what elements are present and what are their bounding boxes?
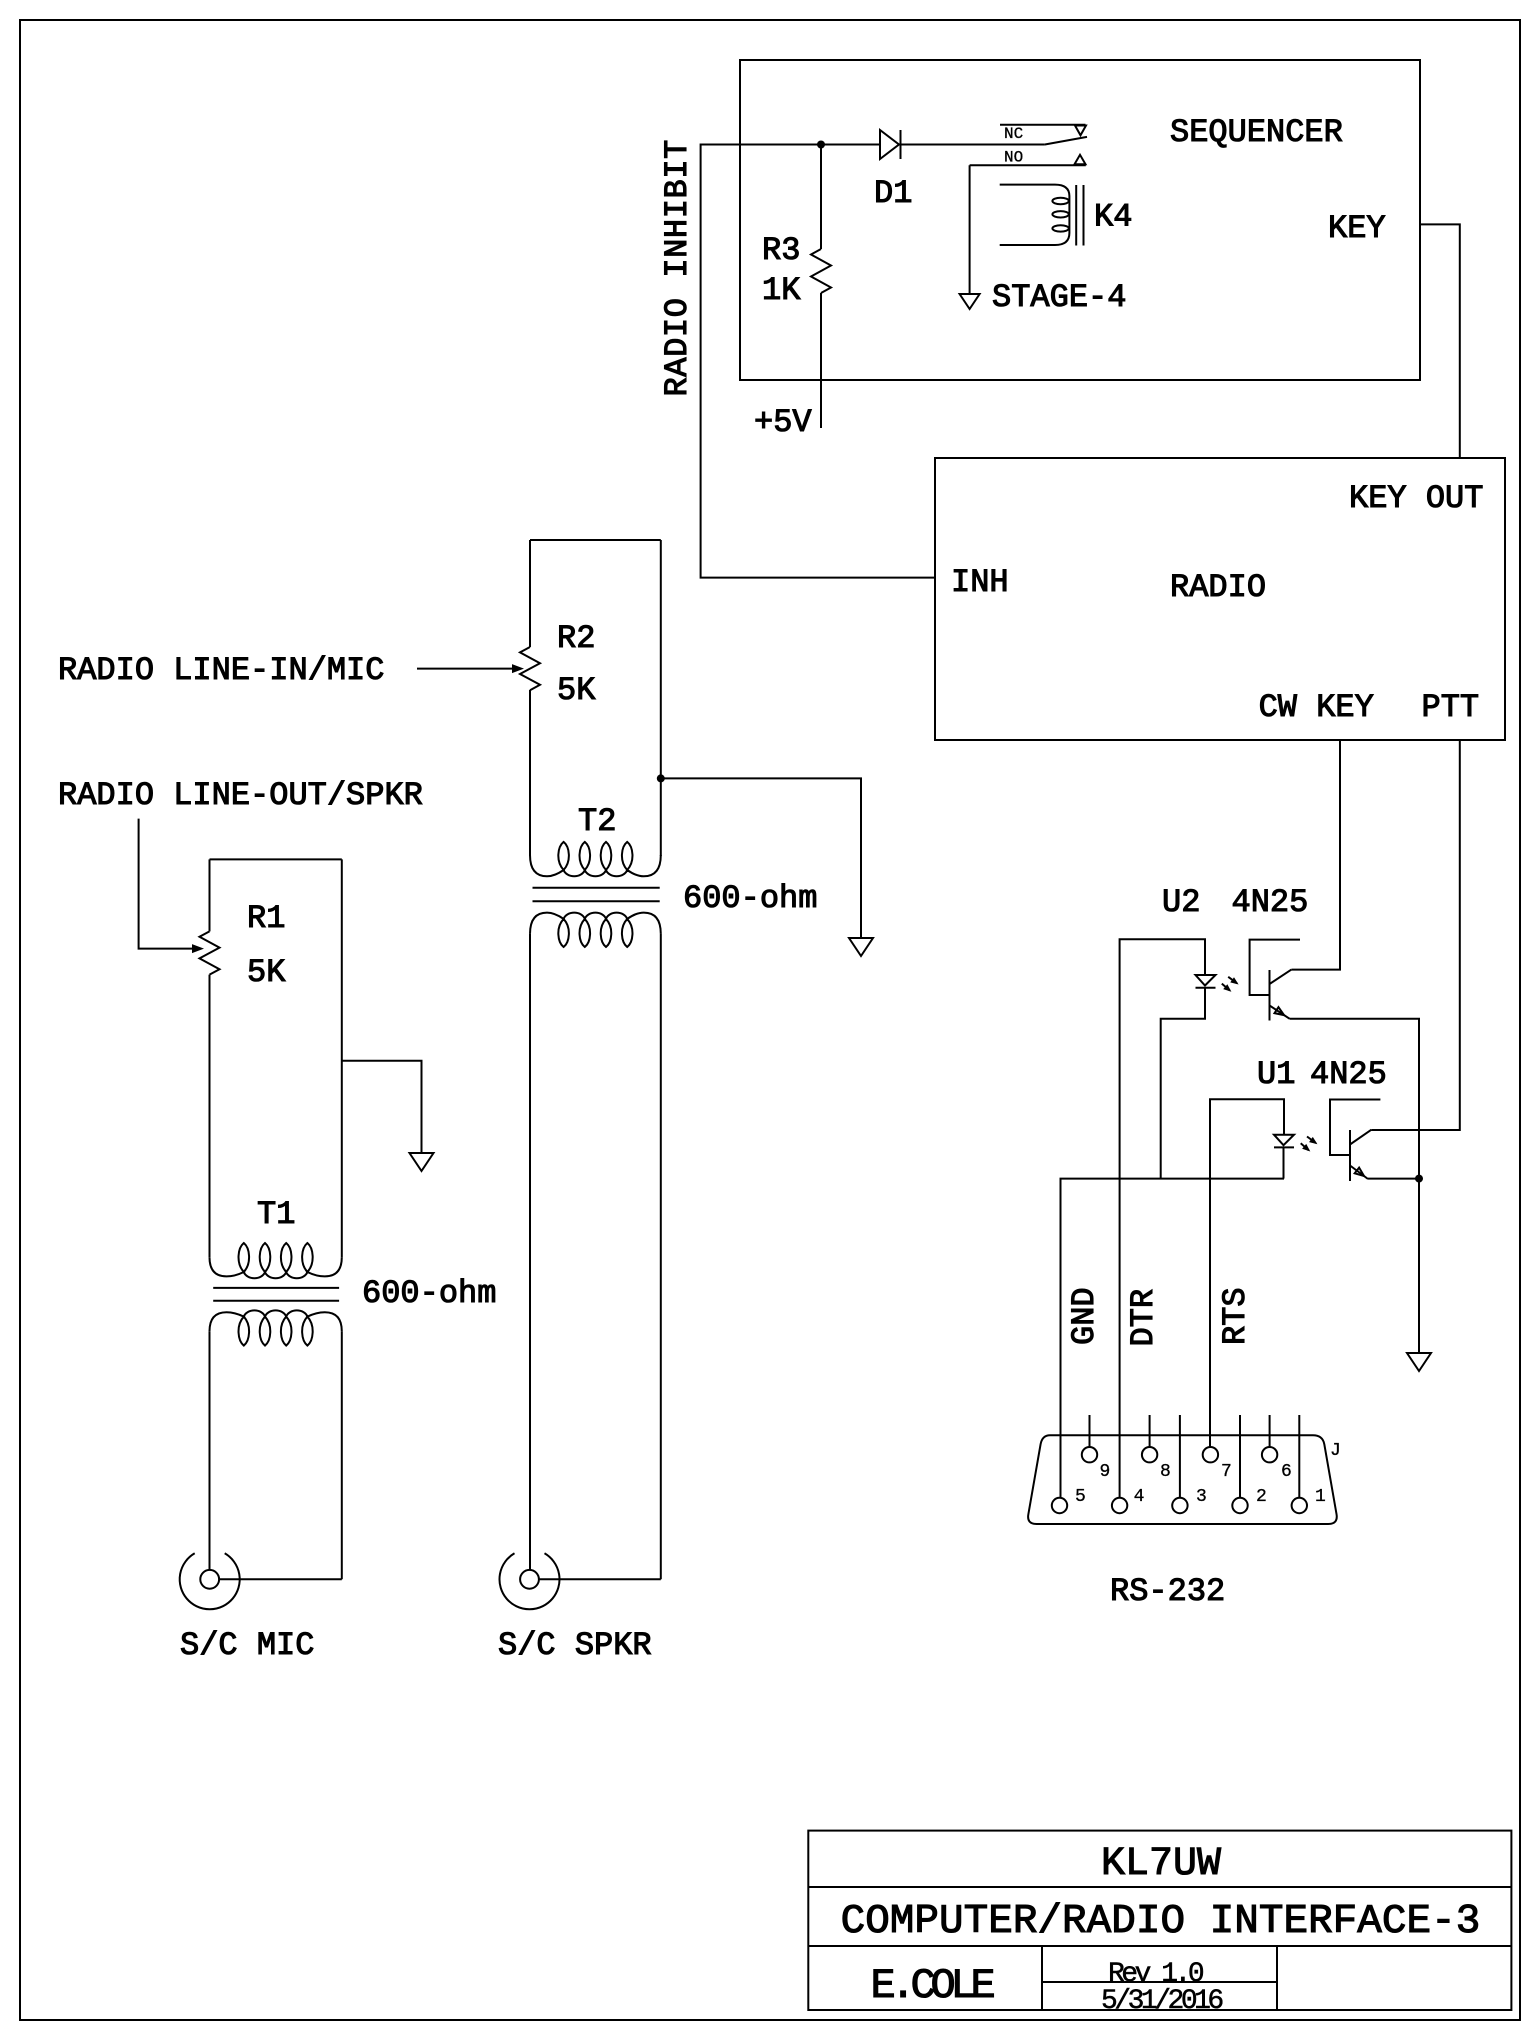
T1 upper winding box xyxy=(210,859,342,1257)
ground symbol right xyxy=(1407,1353,1431,1371)
T2 upper winding box xyxy=(530,540,661,856)
svg-text:+5V: +5V xyxy=(754,404,812,441)
jack S/C SPKR xyxy=(500,1553,560,1609)
wire RADIO INHIBIT net xyxy=(701,145,935,578)
pin stub 8 xyxy=(1149,1415,1151,1447)
pin 3 xyxy=(1172,1498,1187,1513)
svg-text:KEY OUT: KEY OUT xyxy=(1349,480,1483,517)
pin 2 xyxy=(1232,1498,1247,1513)
pin stub 3 xyxy=(1179,1415,1181,1498)
svg-text:INH: INH xyxy=(951,564,1009,601)
relay coil K4 xyxy=(1000,185,1070,245)
ground symbol T2 xyxy=(849,938,873,956)
U2 light arrows xyxy=(1222,977,1241,994)
T2 secondary box wires xyxy=(530,934,661,1579)
svg-text:KEY: KEY xyxy=(1328,210,1386,247)
T1 secondary coil xyxy=(210,1310,342,1345)
svg-text:4: 4 xyxy=(1134,1487,1145,1507)
wire U1 LED cathode to gnd rail xyxy=(1283,1147,1285,1178)
svg-text:R2: R2 xyxy=(557,620,595,657)
svg-text:K4: K4 xyxy=(1094,199,1132,236)
U1 LED xyxy=(1274,1135,1294,1148)
pin 1 xyxy=(1292,1498,1307,1513)
svg-text:8: 8 xyxy=(1160,1462,1171,1482)
svg-text:9: 9 xyxy=(1100,1462,1111,1482)
potentiometer R1 xyxy=(200,859,220,1257)
title cell divider right xyxy=(1276,1946,1278,2010)
svg-text:RS-232: RS-232 xyxy=(1110,1573,1225,1610)
U1 base lead xyxy=(1330,1100,1380,1156)
title cell divider left xyxy=(1041,1946,1043,2010)
title row divider 2 xyxy=(808,1945,1511,1947)
svg-text:5K: 5K xyxy=(247,954,286,991)
T1 primary coil xyxy=(210,1243,342,1278)
U1 light arrows xyxy=(1301,1137,1320,1154)
T1 core xyxy=(213,1288,339,1301)
svg-text:U2: U2 xyxy=(1162,884,1200,921)
svg-text:NC: NC xyxy=(1004,125,1023,143)
svg-text:5K: 5K xyxy=(557,672,596,709)
svg-text:SEQUENCER: SEQUENCER xyxy=(1170,114,1343,151)
svg-text:COMPUTER/RADIO INTERFACE-3: COMPUTER/RADIO INTERFACE-3 xyxy=(841,1899,1481,1945)
svg-text:4N25: 4N25 xyxy=(1232,884,1309,921)
pin stub 1 xyxy=(1298,1415,1300,1498)
svg-text:6: 6 xyxy=(1281,1462,1292,1482)
svg-text:5/31/2016: 5/31/2016 xyxy=(1101,1986,1222,2017)
T2 core xyxy=(533,888,660,902)
svg-text:S/C MIC: S/C MIC xyxy=(180,1627,314,1664)
pin 9 xyxy=(1082,1447,1097,1462)
svg-text:1: 1 xyxy=(1315,1487,1326,1507)
svg-text:R1: R1 xyxy=(247,900,285,937)
DB9 connector J outline xyxy=(1028,1435,1337,1524)
title row divider 1 xyxy=(808,1886,1511,1888)
T1 secondary box wires xyxy=(210,1331,342,1579)
svg-text:D1: D1 xyxy=(874,175,912,212)
T2 secondary coil xyxy=(530,913,661,947)
wire CW KEY to U2 collector xyxy=(1291,740,1340,970)
U1 transistor xyxy=(1350,1130,1419,1181)
svg-text:RADIO: RADIO xyxy=(1170,569,1266,606)
diode D1 xyxy=(880,130,1045,159)
svg-text:J: J xyxy=(1330,1441,1341,1461)
pin stub 9 xyxy=(1089,1415,1091,1447)
wire KEY from sequencer to radio xyxy=(1420,224,1460,458)
SEQUENCER box xyxy=(740,60,1420,380)
jack S/C MIC xyxy=(180,1553,240,1609)
svg-text:7: 7 xyxy=(1221,1462,1232,1482)
svg-text:NO: NO xyxy=(1004,149,1023,167)
ground symbol T1 xyxy=(410,1153,434,1171)
pin 6 xyxy=(1262,1447,1277,1462)
svg-text:1K: 1K xyxy=(762,272,801,309)
svg-text:600-ohm: 600-ohm xyxy=(683,880,817,917)
relay K4 core xyxy=(1076,185,1083,246)
title block outline xyxy=(808,1831,1511,2010)
svg-text:2: 2 xyxy=(1256,1487,1267,1507)
svg-text:GND: GND xyxy=(1066,1287,1103,1345)
svg-text:T1: T1 xyxy=(257,1196,295,1233)
svg-text:3: 3 xyxy=(1196,1487,1207,1507)
wire PTT to U1 collector xyxy=(1371,740,1459,1130)
svg-text:PTT: PTT xyxy=(1422,689,1480,726)
svg-text:5: 5 xyxy=(1075,1487,1086,1507)
relay contact NO xyxy=(970,155,1086,166)
svg-text:600-ohm: 600-ohm xyxy=(362,1275,496,1312)
svg-text:4N25: 4N25 xyxy=(1310,1056,1387,1093)
wire T2 tap to ground xyxy=(660,778,861,938)
pin 7 xyxy=(1203,1447,1218,1462)
resistor R3 xyxy=(811,145,831,429)
svg-text:RADIO INHIBIT: RADIO INHIBIT xyxy=(659,139,696,396)
wire NO to ground xyxy=(969,165,971,294)
relay armature xyxy=(1045,137,1087,145)
svg-text:DTR: DTR xyxy=(1125,1289,1162,1347)
node U2 emitter / U1 emitter junction xyxy=(1415,1175,1423,1183)
wire U2 LED cathode to gnd rail xyxy=(1161,988,1205,1179)
U2 LED xyxy=(1196,975,1216,988)
svg-text:RADIO LINE-IN/MIC: RADIO LINE-IN/MIC xyxy=(58,652,384,689)
RADIO box xyxy=(935,458,1505,740)
ground STAGE-4 xyxy=(960,294,980,309)
potentiometer R2 xyxy=(520,540,540,856)
pin stub 6 xyxy=(1269,1415,1271,1447)
wire arrow to R2 wiper xyxy=(417,664,524,673)
node junction D1/R3 xyxy=(817,141,825,149)
svg-text:RTS: RTS xyxy=(1217,1287,1254,1345)
svg-text:KL7UW: KL7UW xyxy=(1101,1842,1221,1887)
pin 4 xyxy=(1112,1498,1127,1513)
svg-text:E.COLE: E.COLE xyxy=(871,1962,995,2010)
wire RTS to U1 LED anode xyxy=(1210,1099,1284,1448)
svg-text:RADIO LINE-OUT/SPKR: RADIO LINE-OUT/SPKR xyxy=(58,777,423,814)
wire emitter junction to ground xyxy=(1418,1179,1420,1353)
wire T1 tap to ground xyxy=(342,1061,422,1153)
svg-text:S/C SPKR: S/C SPKR xyxy=(498,1627,652,1664)
wire DTR to U2 LED anode xyxy=(1120,939,1205,1498)
svg-text:R3: R3 xyxy=(762,232,800,269)
svg-text:STAGE-4: STAGE-4 xyxy=(992,279,1126,316)
U2 base lead xyxy=(1250,940,1300,995)
svg-text:T2: T2 xyxy=(578,803,616,840)
wire arrow to R1 wiper xyxy=(139,819,204,954)
wire GND rail xyxy=(1061,1179,1285,1497)
pin 5 xyxy=(1052,1498,1067,1513)
title rev cell divider xyxy=(1042,1981,1277,1983)
svg-text:U1: U1 xyxy=(1257,1056,1295,1093)
svg-text:CW KEY: CW KEY xyxy=(1259,689,1374,726)
T2 primary coil xyxy=(530,842,661,876)
pin 8 xyxy=(1142,1447,1157,1462)
U2 transistor xyxy=(1270,970,1420,1179)
pin stub 2 xyxy=(1239,1415,1241,1498)
relay contact NC xyxy=(1000,125,1086,136)
node T2 tap junction xyxy=(657,774,665,782)
